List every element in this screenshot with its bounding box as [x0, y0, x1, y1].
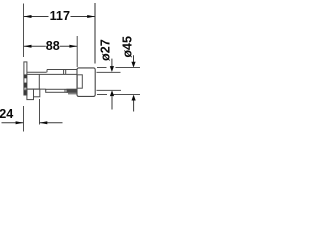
ring joint tick 1: [63, 70, 65, 75]
escutcheon dark segment 1: [24, 74, 27, 78]
svg-text:88: 88: [46, 39, 60, 53]
bracket step: [45, 89, 47, 90]
extension line ø45 bottom edge: [97, 94, 107, 96]
arrowhead 88 right: [69, 45, 77, 48]
escutcheon dark segment 2: [24, 83, 27, 88]
leader ø27 upper: [111, 59, 113, 67]
extension line right for 24 dim: [39, 99, 41, 125]
bracket box 1: [27, 89, 34, 100]
arm top edge (outer section): [47, 69, 77, 71]
extension line ø27 bottom edge: [97, 89, 122, 91]
leader ø27 lower: [111, 96, 113, 109]
arm top edge (wall section): [27, 71, 47, 73]
rail bar: [46, 89, 77, 92]
arrowhead 24 right (pointing left): [40, 121, 48, 124]
svg-text:ø45: ø45: [120, 36, 134, 58]
arrowhead 117 left: [24, 15, 32, 18]
extension line right for 117 dim: [94, 3, 96, 64]
rail dark segment: [66, 89, 76, 93]
bracket box 2: [34, 89, 40, 97]
svg-text:24: 24: [0, 107, 13, 121]
inner tab inside block: [77, 75, 82, 88]
bracket top edge: [25, 88, 46, 90]
extension line left for 24 dim: [23, 106, 25, 132]
arrowhead ø45 up: [132, 95, 136, 101]
svg-text:117: 117: [50, 9, 70, 23]
arrowhead 24 left (pointing right): [16, 121, 24, 124]
extension line left (wall) for 117/88 dims: [23, 4, 25, 58]
arrowhead ø45 down: [131, 62, 135, 68]
extension line ø45 top edge: [97, 67, 107, 69]
rail lower edge: [68, 93, 77, 95]
end block (knob): [77, 68, 95, 97]
arm bottom edge: [27, 73, 77, 75]
dimension line 24 left tail: [2, 122, 24, 124]
mounting bracket vertical face x=39: [38, 74, 40, 89]
escutcheon dark segment 3: [24, 90, 27, 95]
dimension line 88: [24, 45, 46, 47]
leader ø45 lower: [133, 101, 135, 112]
arrowhead 88 left: [24, 45, 32, 48]
wall plate / escutcheon (edge view): [24, 62, 27, 95]
leader ø45 upper: [133, 55, 135, 62]
dimension line 117: [24, 16, 49, 18]
extension line ø27 top edge: [97, 71, 121, 73]
svg-text:ø27: ø27: [99, 39, 113, 61]
label ø27 (rotated): [99, 39, 113, 61]
dimension line 24 right tail: [40, 122, 63, 124]
label ø45 (rotated): [120, 36, 134, 58]
arm step at x=46.6: [46, 70, 48, 73]
arrowhead ø27 down: [110, 66, 114, 72]
arrowhead ø27 up: [110, 90, 114, 96]
arrowhead 117 right: [87, 15, 95, 18]
extension line right for 88 dim: [76, 36, 78, 67]
ring joint tick 2: [65, 70, 67, 75]
rail joint line 1: [64, 89, 66, 92]
